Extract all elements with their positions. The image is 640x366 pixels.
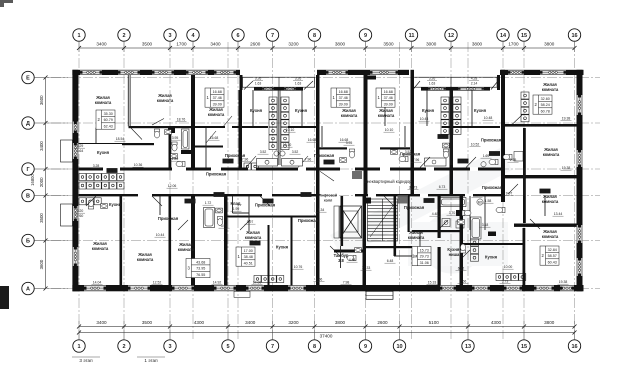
svg-text:4.48: 4.48 xyxy=(349,258,356,262)
svg-text:2.66: 2.66 xyxy=(460,280,467,284)
svg-text:3.18: 3.18 xyxy=(482,223,489,227)
svg-text:1.60: 1.60 xyxy=(77,214,84,218)
area table apt4 xyxy=(376,88,395,107)
svg-text:7.96: 7.96 xyxy=(305,158,312,162)
svg-text:38.48: 38.48 xyxy=(244,255,253,259)
svg-text:2000: 2000 xyxy=(39,177,44,187)
svg-text:58.24: 58.24 xyxy=(541,103,550,107)
svg-text:13.44: 13.44 xyxy=(554,212,563,216)
svg-text:58.57: 58.57 xyxy=(548,254,557,258)
top-left corner mark xyxy=(0,0,13,7)
svg-text:3200: 3200 xyxy=(288,42,299,47)
svg-text:1.63: 1.63 xyxy=(255,82,262,86)
svg-text:СА-7М: СА-7М xyxy=(540,189,550,193)
extension lines xyxy=(35,42,575,340)
svg-text:19.38: 19.38 xyxy=(559,280,568,284)
vent shafts xyxy=(352,171,408,204)
svg-text:2.95: 2.95 xyxy=(510,158,517,162)
svg-text:14: 14 xyxy=(500,33,507,39)
svg-text:15.73: 15.73 xyxy=(420,248,429,252)
svg-text:43.68: 43.68 xyxy=(196,260,205,264)
svg-text:4300: 4300 xyxy=(194,320,205,325)
exterior walls xyxy=(72,70,583,291)
interior walls horizontal xyxy=(79,124,577,253)
entrance porch xyxy=(234,291,393,299)
svg-text:12.06: 12.06 xyxy=(168,184,177,188)
svg-text:комната: комната xyxy=(95,100,112,105)
area table bottom mid xyxy=(236,247,255,266)
svg-text:10.36: 10.36 xyxy=(134,163,143,167)
svg-text:14.92: 14.92 xyxy=(213,281,222,285)
svg-text:9: 9 xyxy=(364,33,367,39)
svg-text:8: 8 xyxy=(313,344,316,350)
bath cluster axis3-4 xyxy=(182,129,190,149)
bath right low xyxy=(496,207,505,212)
svg-text:СА-7М: СА-7М xyxy=(301,193,311,197)
svg-text:17.00: 17.00 xyxy=(253,281,262,285)
svg-text:2: 2 xyxy=(122,344,125,350)
svg-text:3400: 3400 xyxy=(96,320,107,325)
svg-text:Кухня: Кухня xyxy=(422,108,435,113)
bottom dimension lines xyxy=(77,320,577,339)
svg-text:19.38: 19.38 xyxy=(562,117,571,121)
boxed door labels xyxy=(107,134,551,245)
svg-text:7.98: 7.98 xyxy=(343,281,350,285)
svg-text:3.52: 3.52 xyxy=(292,150,299,154)
svg-text:3400: 3400 xyxy=(96,42,107,47)
svg-text:3400: 3400 xyxy=(39,141,44,151)
washing machine circle xyxy=(477,199,483,205)
svg-text:8: 8 xyxy=(313,33,316,39)
svg-text:3.26: 3.26 xyxy=(295,77,302,81)
svg-text:комната: комната xyxy=(341,113,358,118)
svg-text:Е: Е xyxy=(26,76,30,82)
svg-text:10.10: 10.10 xyxy=(385,128,394,132)
svg-text:10.10: 10.10 xyxy=(286,128,295,132)
svg-text:1м: 1м xyxy=(412,254,417,259)
svg-text:СА-7М: СА-7М xyxy=(458,159,468,163)
thin partitions xyxy=(96,75,545,268)
svg-text:3.20: 3.20 xyxy=(77,209,84,213)
area table apt2 xyxy=(205,88,224,107)
svg-text:39.09: 39.09 xyxy=(384,103,393,107)
svg-text:1700: 1700 xyxy=(508,42,519,47)
svg-text:Д: Д xyxy=(26,121,30,127)
svg-text:6.73: 6.73 xyxy=(439,185,446,189)
svg-text:3800: 3800 xyxy=(544,320,555,325)
svg-text:Прихожая: Прихожая xyxy=(298,218,319,223)
svg-text:СА-7М: СА-7М xyxy=(424,199,434,203)
elevator xyxy=(334,206,362,238)
svg-text:3.70: 3.70 xyxy=(449,211,456,215)
svg-text:Кухня: Кухня xyxy=(474,108,487,113)
balconies top xyxy=(243,77,498,87)
svg-text:3800: 3800 xyxy=(472,42,483,47)
bath cluster axis11-12 low xyxy=(440,198,466,207)
svg-text:3200: 3200 xyxy=(288,320,299,325)
svg-text:37.46: 37.46 xyxy=(213,96,222,100)
svg-text:40.51: 40.51 xyxy=(244,262,253,266)
svg-text:16.68: 16.68 xyxy=(210,136,219,140)
bottom axis circles xyxy=(73,340,85,352)
watermark xyxy=(330,148,512,269)
left balconies xyxy=(61,140,73,226)
svg-text:3500: 3500 xyxy=(142,42,153,47)
bottom wall windows xyxy=(84,285,106,291)
svg-text:СА-7М: СА-7М xyxy=(107,169,117,173)
svg-text:2600: 2600 xyxy=(250,42,261,47)
svg-text:Прихожая: Прихожая xyxy=(206,172,227,177)
svg-text:10.48: 10.48 xyxy=(420,117,429,121)
svg-text:17.00: 17.00 xyxy=(244,249,253,253)
svg-text:11: 11 xyxy=(409,33,415,39)
svg-text:5: 5 xyxy=(226,344,229,350)
kitchen center walls xyxy=(278,90,452,165)
svg-text:В: В xyxy=(26,194,30,200)
svg-text:16.68: 16.68 xyxy=(384,90,393,94)
svg-text:39.09: 39.09 xyxy=(213,103,222,107)
svg-text:3 этап: 3 этап xyxy=(79,358,93,363)
svg-text:3: 3 xyxy=(168,344,171,350)
svg-text:СА-7М: СА-7М xyxy=(223,159,233,163)
svg-text:9.97: 9.97 xyxy=(247,220,254,224)
svg-text:1: 1 xyxy=(77,344,80,350)
svg-text:1: 1 xyxy=(77,33,80,39)
svg-text:СА-7М: СА-7М xyxy=(324,160,334,164)
balcony door diagonals xyxy=(244,81,498,90)
svg-text:12.52: 12.52 xyxy=(153,281,162,285)
svg-text:3600: 3600 xyxy=(39,95,44,105)
svg-text:15: 15 xyxy=(521,33,527,39)
svg-text:1.72: 1.72 xyxy=(205,201,212,205)
svg-text:Прихожая: Прихожая xyxy=(482,185,503,190)
svg-text:А: А xyxy=(26,287,30,293)
svg-text:39.09: 39.09 xyxy=(339,103,348,107)
svg-text:4.97: 4.97 xyxy=(474,194,481,198)
svg-text:комната: комната xyxy=(157,98,174,103)
svg-text:ниша: ниша xyxy=(449,252,460,257)
bath top near axis8 xyxy=(349,149,354,158)
svg-text:6: 6 xyxy=(236,33,239,39)
fixtures left top xyxy=(165,130,172,135)
svg-text:Лифтовой: Лифтовой xyxy=(319,194,337,198)
svg-text:3.8: 3.8 xyxy=(338,258,344,263)
svg-text:18.54: 18.54 xyxy=(116,137,125,141)
svg-text:37.46: 37.46 xyxy=(384,96,393,100)
svg-text:комната: комната xyxy=(542,234,559,239)
svg-text:1.58: 1.58 xyxy=(485,199,492,203)
svg-text:3.26: 3.26 xyxy=(255,77,262,81)
svg-text:СА-7М: СА-7М xyxy=(263,199,273,203)
svg-text:60.79: 60.79 xyxy=(104,118,113,122)
svg-text:2: 2 xyxy=(122,33,125,39)
svg-text:16: 16 xyxy=(571,33,577,39)
svg-text:комната: комната xyxy=(408,235,425,240)
bath cluster axis 11 top xyxy=(399,156,408,161)
area table apt3 xyxy=(331,88,350,107)
svg-text:14.04: 14.04 xyxy=(93,281,102,285)
svg-text:3.52: 3.52 xyxy=(405,150,412,154)
svg-text:комната: комната xyxy=(245,235,262,240)
svg-text:7.96: 7.96 xyxy=(242,158,249,162)
svg-text:3.73: 3.73 xyxy=(502,280,509,284)
svg-text:3500: 3500 xyxy=(39,213,44,223)
svg-text:7: 7 xyxy=(271,33,274,39)
svg-text:комната: комната xyxy=(542,199,559,204)
svg-text:19.38: 19.38 xyxy=(562,166,571,170)
svg-text:9.97: 9.97 xyxy=(506,192,513,196)
svg-text:16.68: 16.68 xyxy=(213,90,222,94)
svg-text:10.10: 10.10 xyxy=(283,143,292,147)
svg-text:16.68: 16.68 xyxy=(308,138,317,142)
svg-text:2600: 2600 xyxy=(377,320,388,325)
svg-text:3600: 3600 xyxy=(39,259,44,269)
svg-text:18.76: 18.76 xyxy=(177,118,186,122)
interior wall window gaps right column xyxy=(526,124,542,127)
area table bottom left xyxy=(186,259,210,278)
top axis circles xyxy=(73,29,85,41)
svg-text:3.26: 3.26 xyxy=(429,77,436,81)
svg-text:6.48: 6.48 xyxy=(387,259,394,263)
svg-text:СА-7М: СА-7М xyxy=(214,193,224,197)
svg-text:Прихожая: Прихожая xyxy=(481,138,502,143)
svg-text:13: 13 xyxy=(465,344,471,350)
svg-text:Прихожая: Прихожая xyxy=(314,153,335,158)
svg-text:комната: комната xyxy=(543,152,560,157)
svg-text:3500: 3500 xyxy=(142,320,153,325)
svg-text:3.95: 3.95 xyxy=(172,136,179,140)
svg-text:3400: 3400 xyxy=(210,42,221,47)
svg-text:37.46: 37.46 xyxy=(339,96,348,100)
svg-text:Прихожая: Прихожая xyxy=(404,205,425,210)
svg-text:73.95: 73.95 xyxy=(196,267,205,271)
svg-text:3.52: 3.52 xyxy=(260,150,267,154)
svg-text:комната: комната xyxy=(542,87,559,92)
svg-text:Кухня: Кухня xyxy=(276,245,289,250)
svg-text:4.48: 4.48 xyxy=(432,212,439,216)
svg-text:1.63: 1.63 xyxy=(429,82,436,86)
kitchen columns axis12 xyxy=(441,97,449,134)
left dimension line xyxy=(30,76,48,291)
svg-text:Прихожая: Прихожая xyxy=(158,216,179,221)
svg-text:15.33: 15.33 xyxy=(362,266,371,270)
recessed wall windows xyxy=(262,87,274,90)
svg-text:60.43: 60.43 xyxy=(548,261,557,265)
svg-text:32.60: 32.60 xyxy=(541,97,550,101)
svg-text:СА-7М: СА-7М xyxy=(250,241,260,245)
svg-text:32.84: 32.84 xyxy=(548,248,557,252)
svg-text:3.95: 3.95 xyxy=(346,141,353,145)
svg-text:2.14: 2.14 xyxy=(471,82,478,86)
bath right xyxy=(443,143,450,148)
interior walls vertical xyxy=(120,70,526,286)
svg-text:СА-7М: СА-7М xyxy=(490,152,500,156)
svg-text:1.69: 1.69 xyxy=(483,154,490,158)
svg-text:1.89: 1.89 xyxy=(172,157,179,161)
svg-text:комната: комната xyxy=(137,257,154,262)
svg-text:16800: 16800 xyxy=(30,174,35,186)
svg-text:31.06: 31.06 xyxy=(420,261,429,265)
svg-text:29.73: 29.73 xyxy=(420,255,429,259)
svg-text:10: 10 xyxy=(396,344,402,350)
svg-text:3: 3 xyxy=(168,33,171,39)
svg-text:СА-7М: СА-7М xyxy=(185,199,195,203)
svg-text:10.52: 10.52 xyxy=(471,143,480,147)
area table top right xyxy=(533,95,552,114)
wall stub below top wall xyxy=(366,76,376,80)
svg-text:Внеквартирный коридор: Внеквартирный коридор xyxy=(364,179,412,184)
svg-text:4.28: 4.28 xyxy=(471,77,478,81)
svg-text:9: 9 xyxy=(364,344,367,350)
svg-text:1700: 1700 xyxy=(176,42,187,47)
svg-text:5.34: 5.34 xyxy=(318,208,325,212)
svg-text:62.43: 62.43 xyxy=(104,125,113,129)
svg-text:3.29: 3.29 xyxy=(77,144,84,148)
svg-text:Б: Б xyxy=(26,239,30,245)
top dimension line xyxy=(77,42,577,51)
svg-text:3800: 3800 xyxy=(544,42,555,47)
shower cabins mid strip xyxy=(257,159,303,167)
stairs xyxy=(366,198,398,242)
left axis circles xyxy=(22,71,34,83)
svg-text:6.22: 6.22 xyxy=(458,267,465,271)
svg-text:12: 12 xyxy=(448,33,454,39)
svg-text:1.63: 1.63 xyxy=(295,82,302,86)
right wall windows xyxy=(577,95,583,115)
svg-text:36.73: 36.73 xyxy=(409,186,418,190)
svg-text:10.44: 10.44 xyxy=(156,233,165,237)
svg-text:76.55: 76.55 xyxy=(196,273,205,277)
axis grid lines xyxy=(35,42,600,339)
kitchen columns axis7-8 xyxy=(269,97,277,150)
svg-text:3400: 3400 xyxy=(245,320,256,325)
kitchen counters bottom xyxy=(79,174,124,181)
svg-text:15: 15 xyxy=(521,344,527,350)
svg-text:холл: холл xyxy=(324,199,333,203)
svg-text:15.33: 15.33 xyxy=(428,281,437,285)
svg-text:комната: комната xyxy=(92,246,109,251)
svg-text:СА-7М: СА-7М xyxy=(438,135,448,139)
svg-text:комната: комната xyxy=(208,112,225,117)
svg-text:10.76: 10.76 xyxy=(294,265,303,269)
svg-text:Кухня: Кухня xyxy=(109,202,122,207)
svg-text:7: 7 xyxy=(271,344,274,350)
svg-text:Кухня: Кухня xyxy=(485,255,498,260)
svg-text:37400: 37400 xyxy=(320,334,333,339)
svg-text:Кухня: Кухня xyxy=(97,150,110,155)
svg-text:3000: 3000 xyxy=(426,42,437,47)
svg-text:10.48: 10.48 xyxy=(484,116,493,120)
small fixtures low center xyxy=(347,255,356,260)
area table apt left xyxy=(96,110,115,129)
left wall windows xyxy=(72,122,78,134)
svg-text:1.99: 1.99 xyxy=(233,207,240,211)
svg-text:Кухня: Кухня xyxy=(295,108,308,113)
svg-text:Кухня: Кухня xyxy=(250,108,263,113)
svg-text:16.68: 16.68 xyxy=(339,90,348,94)
bottom captions xyxy=(72,356,100,358)
svg-text:7.96: 7.96 xyxy=(413,158,420,162)
svg-text:комната: комната xyxy=(378,113,395,118)
area table studio xyxy=(412,247,431,266)
svg-text:3.95: 3.95 xyxy=(221,224,228,228)
doors xyxy=(86,115,540,260)
svg-text:3800: 3800 xyxy=(335,320,346,325)
svg-text:Клад.: Клад. xyxy=(230,201,241,206)
svg-text:3800: 3800 xyxy=(335,42,346,47)
top wall windows xyxy=(80,70,102,75)
svg-text:16: 16 xyxy=(571,344,577,350)
bath cluster mid-left lower xyxy=(88,200,93,209)
washer circles pair xyxy=(274,151,279,156)
svg-text:3500: 3500 xyxy=(383,42,394,47)
svg-text:1 этап: 1 этап xyxy=(144,358,158,363)
area table bottom right xyxy=(540,246,559,265)
left edge black bar xyxy=(0,286,9,309)
door gaps xyxy=(103,167,478,197)
svg-text:3.28: 3.28 xyxy=(93,164,100,168)
svg-text:4300: 4300 xyxy=(491,320,502,325)
svg-text:10.00: 10.00 xyxy=(504,265,513,269)
svg-text:1.64: 1.64 xyxy=(77,149,84,153)
svg-text:35.30: 35.30 xyxy=(104,112,113,116)
svg-text:ВО: ВО xyxy=(478,200,483,204)
svg-text:комната: комната xyxy=(178,247,195,252)
svg-text:60.78: 60.78 xyxy=(541,110,550,114)
svg-text:4.06: 4.06 xyxy=(316,278,323,282)
svg-text:5100: 5100 xyxy=(429,320,440,325)
